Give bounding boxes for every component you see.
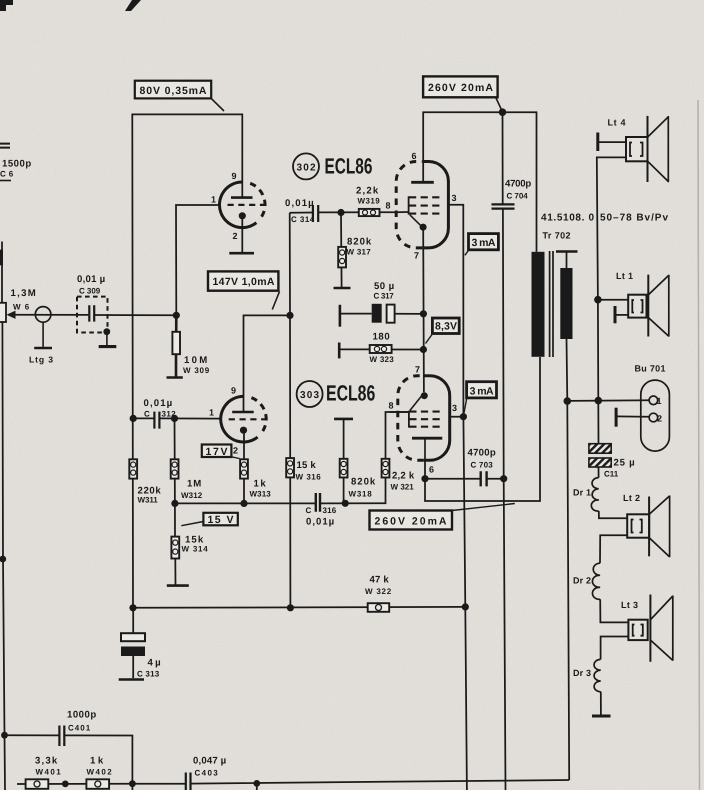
svg-text:7: 7 xyxy=(415,365,420,375)
svg-text:W 316: W 316 xyxy=(296,473,322,482)
resistor W318 820k with terminal bar xyxy=(334,419,376,499)
label box 80V 0,35mA xyxy=(135,81,224,111)
svg-text:Ltg 3: Ltg 3 xyxy=(29,355,53,365)
capacitor C11 25µ electrolytic xyxy=(589,444,635,479)
node C401 left junction xyxy=(1,732,8,739)
resistor W317 820k xyxy=(334,237,372,289)
svg-text:1M: 1M xyxy=(187,479,201,490)
wire Lt2 bottom to Dr2 xyxy=(600,535,627,563)
wire Lt1 top xyxy=(598,299,628,301)
svg-text:W 322: W 322 xyxy=(365,587,392,596)
wire C704 branch down the page xyxy=(503,209,506,790)
wire C401 row xyxy=(5,735,133,783)
wire coupling node: C314 left down to 147V junction, down through W316 to bus xyxy=(289,213,292,608)
svg-text:W 314: W 314 xyxy=(182,545,209,554)
svg-text:W318: W318 xyxy=(349,490,373,499)
wire C313 leads xyxy=(132,608,134,679)
svg-text:Lt 1: Lt 1 xyxy=(616,271,633,281)
node 147V junction xyxy=(286,312,293,319)
svg-text:820k: 820k xyxy=(351,477,376,488)
node C317 cathode junction xyxy=(420,310,427,317)
svg-text:Dr 2: Dr 2 xyxy=(573,576,591,586)
resistor W309 10M xyxy=(167,315,210,377)
svg-text:2: 2 xyxy=(233,446,238,456)
loudspeaker Lt4 xyxy=(598,116,669,182)
svg-text:W319: W319 xyxy=(358,197,381,206)
resistor W311 220k xyxy=(129,459,161,504)
svg-text:Lt 2: Lt 2 xyxy=(623,493,640,503)
svg-text:W313: W313 xyxy=(250,490,272,499)
svg-text:0,01µ: 0,01µ xyxy=(285,198,314,209)
wire C11 to Dr1 xyxy=(598,467,600,478)
tube label 303 ECL86 xyxy=(297,381,376,408)
title text fragment left xyxy=(0,0,13,11)
svg-text:8,3V: 8,3V xyxy=(435,321,457,333)
wire screen line pin3-302 down to bus and page bottom xyxy=(449,205,467,790)
capacitor C312 0,01µ xyxy=(144,398,177,429)
wire speaker common line xyxy=(597,157,628,443)
svg-text:3,3k: 3,3k xyxy=(35,756,58,767)
svg-text:1 k: 1 k xyxy=(90,756,104,767)
svg-text:15 V: 15 V xyxy=(208,514,234,526)
wire Lt4 top terminal xyxy=(598,141,628,143)
label box 147V 1,0mA xyxy=(208,271,280,309)
wire 1M W312 branch xyxy=(174,418,177,536)
svg-text:7: 7 xyxy=(414,251,419,261)
node grid input junction xyxy=(173,312,180,319)
resistor W313 1k xyxy=(240,459,271,498)
svg-text:C 6: C 6 xyxy=(0,170,14,179)
wire C703 row xyxy=(425,478,504,480)
wire Dr1 to Lt2 xyxy=(599,511,628,518)
wire pentode302 plate to 260V rail and transformer primary xyxy=(423,112,536,252)
node screen pin3 junction xyxy=(460,413,467,420)
capacitor C6 1500p (cut at left edge) xyxy=(0,144,31,181)
wire bottom bus xyxy=(17,780,569,790)
wire C704 top lead xyxy=(502,112,504,203)
svg-text:303: 303 xyxy=(300,390,319,401)
choke Dr1 xyxy=(573,478,599,512)
wire W314 to ground xyxy=(174,559,176,585)
label box 260V 20mA upper xyxy=(423,76,501,109)
svg-text:C401: C401 xyxy=(68,724,91,733)
pentode system 303b xyxy=(389,365,458,475)
wire transformer secondary down to bottom bus xyxy=(567,339,570,780)
svg-text:1000p: 1000p xyxy=(67,710,96,721)
node bus left junction xyxy=(129,604,136,611)
svg-text:316: 316 xyxy=(323,506,337,515)
cut element at left edge xyxy=(0,250,3,266)
node C703 right junction xyxy=(500,475,507,482)
resistor W321 2,2k xyxy=(382,459,415,492)
svg-text:8: 8 xyxy=(389,401,394,411)
title text fragment right xyxy=(125,0,141,11)
svg-text:C 309: C 309 xyxy=(79,287,101,296)
node W312 bottom junction xyxy=(171,500,178,507)
wire C317 row xyxy=(340,313,423,315)
svg-text:9: 9 xyxy=(231,386,236,396)
node W323 cathode junction xyxy=(420,346,427,353)
node bus center junction xyxy=(287,604,294,611)
svg-text:4700p: 4700p xyxy=(468,448,496,459)
transformer Tr 702 xyxy=(532,231,578,358)
resistor W402 1k xyxy=(86,756,112,789)
wire W323 row xyxy=(339,348,423,350)
svg-text:0,01 µ: 0,01 µ xyxy=(77,274,105,285)
capacitor C403 0,047µ xyxy=(186,756,226,790)
svg-text:Dr 3: Dr 3 xyxy=(573,668,591,678)
node triode303 grid junction xyxy=(171,415,178,422)
svg-text:Dr 1: Dr 1 xyxy=(573,488,591,498)
wire 147V to plate of triode 303 xyxy=(244,315,291,411)
capacitor C401 1000p xyxy=(59,710,96,747)
svg-text:15 k: 15 k xyxy=(297,460,317,471)
node W313 bottom junction xyxy=(240,500,247,507)
resistor W323 180 xyxy=(339,332,394,365)
svg-text:C 704: C 704 xyxy=(507,192,529,201)
label box 3mA upper xyxy=(465,234,499,256)
svg-text:1: 1 xyxy=(211,195,216,205)
svg-text:17V: 17V xyxy=(206,446,228,458)
wire grid bus y=503 xyxy=(175,412,409,503)
svg-text:180: 180 xyxy=(373,332,390,343)
svg-text:Lt 3: Lt 3 xyxy=(621,600,638,610)
svg-text:1k: 1k xyxy=(254,479,267,490)
node W317 top junction xyxy=(337,209,344,216)
svg-text:C11: C11 xyxy=(604,470,619,479)
svg-text:0,01µ: 0,01µ xyxy=(144,398,173,409)
wire grid 303 row: C312 line xyxy=(133,417,221,419)
svg-text:C 313: C 313 xyxy=(137,670,160,679)
potentiometer W6 1,3M with wiper arrow xyxy=(0,288,36,322)
svg-text:9: 9 xyxy=(232,171,237,181)
wire W317 branch to ground xyxy=(340,213,343,288)
triode system 303a xyxy=(209,386,267,456)
tube label 302 ECL86 xyxy=(293,153,372,179)
svg-text:80V 0,35mA: 80V 0,35mA xyxy=(140,85,207,97)
node left rail junction xyxy=(0,556,6,563)
svg-text:Bu 701: Bu 701 xyxy=(635,364,666,374)
wire Dr3 to ground xyxy=(600,692,602,715)
wire pin8-303 from W321 xyxy=(390,411,409,413)
svg-text:0,01µ: 0,01µ xyxy=(306,517,334,528)
svg-text:2,2 k: 2,2 k xyxy=(392,471,415,482)
svg-text:147V 1,0mA: 147V 1,0mA xyxy=(213,276,275,288)
capacitor C314 0,01µ xyxy=(285,198,318,224)
page right edge line xyxy=(698,100,700,790)
svg-text:W 309: W 309 xyxy=(183,366,210,375)
svg-text:25 µ: 25 µ xyxy=(614,458,635,469)
svg-text:Lt 4: Lt 4 xyxy=(608,118,626,128)
wire 80V rail: plate 302a to left vertical to bus xyxy=(132,114,242,607)
label box 3mA lower xyxy=(464,382,497,414)
node speaker line junction xyxy=(595,397,603,405)
wire C314 output row to pentode302 grid xyxy=(290,211,409,214)
node W401-W402 junction xyxy=(62,781,69,788)
pentode system 302b xyxy=(386,151,457,261)
svg-text:C: C xyxy=(144,410,150,419)
node C312 left junction xyxy=(130,415,137,422)
svg-text:1: 1 xyxy=(209,408,214,418)
node 260V junction xyxy=(499,108,507,116)
svg-text:50 µ: 50 µ xyxy=(374,281,394,292)
svg-text:41.5108. 0: 41.5108. 0 xyxy=(541,213,594,224)
svg-text:ECL86: ECL86 xyxy=(325,154,373,179)
resistor W316 15k xyxy=(286,458,321,481)
label box 15V xyxy=(181,513,237,526)
svg-text:50–78 Bv/Pv: 50–78 Bv/Pv xyxy=(600,213,668,224)
svg-text:260V 20mA: 260V 20mA xyxy=(428,82,493,94)
svg-text:C: C xyxy=(306,506,312,515)
svg-text:4700p: 4700p xyxy=(505,179,531,190)
wire pin3-303 to screen line xyxy=(450,416,464,418)
label box 17V xyxy=(202,445,240,459)
svg-text:C 317: C 317 xyxy=(374,292,395,301)
wire triode303 cathode to W313 xyxy=(243,432,245,504)
svg-text:W 317: W 317 xyxy=(347,248,372,257)
svg-text:1: 1 xyxy=(657,396,662,406)
wire left rail (pot to page bottom) xyxy=(2,242,5,790)
capacitor C704 4700p xyxy=(492,179,532,209)
node bus right junction xyxy=(462,603,469,610)
node C401 bottom junction xyxy=(129,780,136,787)
svg-text:0,047 µ: 0,047 µ xyxy=(193,756,226,767)
wire grid of triode 302 xyxy=(176,205,221,315)
choke Dr3 xyxy=(573,659,611,716)
svg-text:W312: W312 xyxy=(181,491,203,500)
svg-text:W402: W402 xyxy=(87,768,113,777)
svg-text:W 323: W 323 xyxy=(370,355,395,364)
svg-text:1,3M: 1,3M xyxy=(11,288,36,299)
svg-text:6: 6 xyxy=(429,465,434,475)
svg-text:C 703: C 703 xyxy=(471,461,494,470)
wire pentode303 anode down, to C703 and to transformer primary xyxy=(425,357,540,501)
wire input from pot wiper through Ltg3 to C309 xyxy=(14,314,176,317)
node C403 right junction xyxy=(253,780,260,787)
wire Bu701 contact 1 xyxy=(567,399,649,402)
capacitor C703 4700p xyxy=(468,448,496,487)
node secondary junction xyxy=(564,397,572,405)
svg-text:W401: W401 xyxy=(36,768,62,777)
loudspeaker Lt3 xyxy=(621,595,673,662)
resistor W312 1M xyxy=(171,459,203,500)
resistor W314 15k xyxy=(167,535,208,586)
svg-text:1500p: 1500p xyxy=(2,159,31,170)
svg-text:2,2k: 2,2k xyxy=(356,186,379,197)
loudspeaker Lt1 xyxy=(615,271,669,337)
resistor W401 3,3k xyxy=(26,756,62,789)
svg-text:W 6: W 6 xyxy=(13,303,30,312)
svg-text:3: 3 xyxy=(452,193,457,203)
svg-text:3 mA: 3 mA xyxy=(470,385,494,397)
svg-text:47 k: 47 k xyxy=(370,575,390,586)
wire secondary top lead xyxy=(566,252,568,269)
node Lt1 junction xyxy=(594,296,602,304)
wire triode302 cathode to ground xyxy=(241,219,243,253)
wire bus 47k row xyxy=(133,606,465,609)
svg-text:Tr 702: Tr 702 xyxy=(543,231,571,241)
svg-text:302: 302 xyxy=(297,163,316,174)
svg-text:W311: W311 xyxy=(138,496,159,505)
svg-text:2: 2 xyxy=(233,231,238,241)
wire Lt1 bottom terminal xyxy=(615,314,628,316)
svg-text:2: 2 xyxy=(657,414,662,424)
capacitor C313 4µ electrolytic xyxy=(119,633,161,679)
node anode303 junction xyxy=(421,475,428,482)
triode system 302a xyxy=(211,171,266,253)
capacitor C317 50µ xyxy=(340,281,395,327)
wire Dr2 to Lt3 xyxy=(600,599,628,622)
resistor W319 2,2k xyxy=(356,186,380,217)
svg-text:ECL86: ECL86 xyxy=(326,381,375,406)
capacitor C309 0,01µ with shield box xyxy=(77,274,116,347)
wire W318 to terminal bar xyxy=(343,419,345,503)
loudspeaker Lt2 xyxy=(623,493,670,557)
svg-text:10M: 10M xyxy=(184,355,207,366)
label box 260V 20mA lower xyxy=(370,504,515,530)
wire Lt3 bottom to Dr3 xyxy=(601,637,629,660)
node W318 bottom junction xyxy=(342,500,349,507)
wire Bu701 contact 2 xyxy=(616,415,649,417)
svg-text:8: 8 xyxy=(386,201,391,211)
svg-text:820k: 820k xyxy=(347,237,372,248)
wire shared cathode line 302b-303b xyxy=(422,230,425,392)
svg-text:3 mA: 3 mA xyxy=(472,237,496,249)
svg-text:3: 3 xyxy=(452,403,457,413)
capacitor C316 0,01µ xyxy=(306,493,337,528)
choke Dr2 xyxy=(573,563,600,599)
svg-text:W 321: W 321 xyxy=(391,483,415,492)
jack Ltg 3 xyxy=(29,307,53,365)
connector Bu 701 xyxy=(616,364,669,452)
svg-text:C 314: C 314 xyxy=(291,215,315,224)
svg-text:6: 6 xyxy=(412,151,417,161)
label box 8,3V xyxy=(426,318,460,344)
resistor W322 47k xyxy=(365,575,392,612)
